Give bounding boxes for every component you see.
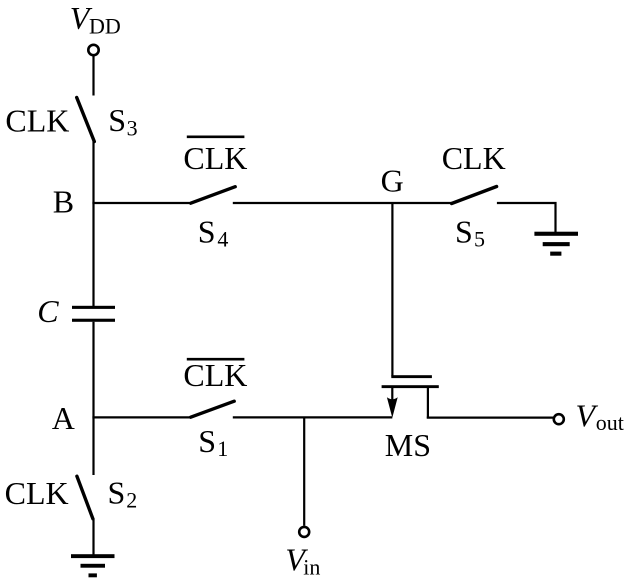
label S3 (108, 102, 137, 140)
wire node A horizontal to S1 (92, 416, 189, 418)
svg-text:5: 5 (474, 226, 485, 251)
svg-text:2: 2 (126, 488, 137, 513)
wire node B horizontal to S4 (92, 202, 189, 204)
svg-text:MS: MS (385, 427, 431, 463)
svg-text:S: S (198, 423, 216, 459)
terminal Vin (299, 527, 309, 537)
svg-text:A: A (52, 400, 75, 436)
label S5 (455, 214, 485, 252)
svg-text:1: 1 (217, 436, 228, 461)
svg-text:C: C (37, 293, 59, 329)
wire Vin junction (303, 417, 305, 525)
capacitor C (72, 306, 115, 322)
svg-text:CLK: CLK (183, 140, 247, 176)
switch S3 (77, 98, 95, 142)
label CLK-bar (S4) (183, 137, 247, 176)
label CLK-bar (S1) (183, 357, 247, 393)
switch S1 (191, 401, 235, 417)
switch S5 (452, 187, 497, 204)
label S4 (198, 214, 229, 252)
label Vin (285, 542, 320, 580)
svg-text:4: 4 (217, 226, 228, 251)
wire S3 to capacitor (node B) (92, 141, 94, 307)
wire VDD to S3 (92, 56, 94, 96)
switch S4 (191, 187, 236, 204)
svg-text:3: 3 (127, 115, 138, 140)
svg-text:S: S (108, 475, 126, 511)
transistor MS channel bar (382, 385, 439, 388)
svg-text:S: S (198, 214, 216, 250)
svg-text:CLK: CLK (442, 140, 506, 176)
wire S2 to ground (92, 519, 94, 556)
terminal Vout (554, 414, 564, 424)
transistor MS gate bar (391, 375, 432, 378)
svg-text:DD: DD (89, 14, 121, 39)
svg-text:G: G (381, 162, 404, 198)
ground (right) (534, 232, 578, 256)
label S1 (198, 423, 228, 461)
svg-text:B: B (53, 183, 74, 219)
wire S1 to MS source (233, 416, 392, 418)
label S2 (108, 475, 138, 513)
wire node G down to MS gate (391, 203, 393, 377)
svg-text:S: S (108, 102, 126, 138)
terminal VDD (88, 45, 98, 55)
wire S5 to ground (497, 203, 556, 232)
wire capacitor to node A to S2 (92, 322, 94, 475)
svg-text:CLK: CLK (5, 475, 69, 511)
ground (bottom left) (71, 554, 115, 577)
transistor MS drain lead (427, 388, 429, 419)
svg-text:S: S (455, 214, 473, 250)
label VDD (70, 0, 121, 39)
label Vout (576, 397, 624, 435)
transistor MS source lead with arrow (387, 388, 398, 418)
svg-text:CLK: CLK (5, 103, 69, 139)
svg-text:in: in (303, 554, 320, 579)
wire MS drain to Vout (427, 417, 553, 419)
svg-text:out: out (596, 410, 624, 435)
switch S2 (77, 476, 93, 519)
svg-text:CLK: CLK (183, 357, 247, 393)
wire S4 to node G to S5 (233, 202, 452, 204)
